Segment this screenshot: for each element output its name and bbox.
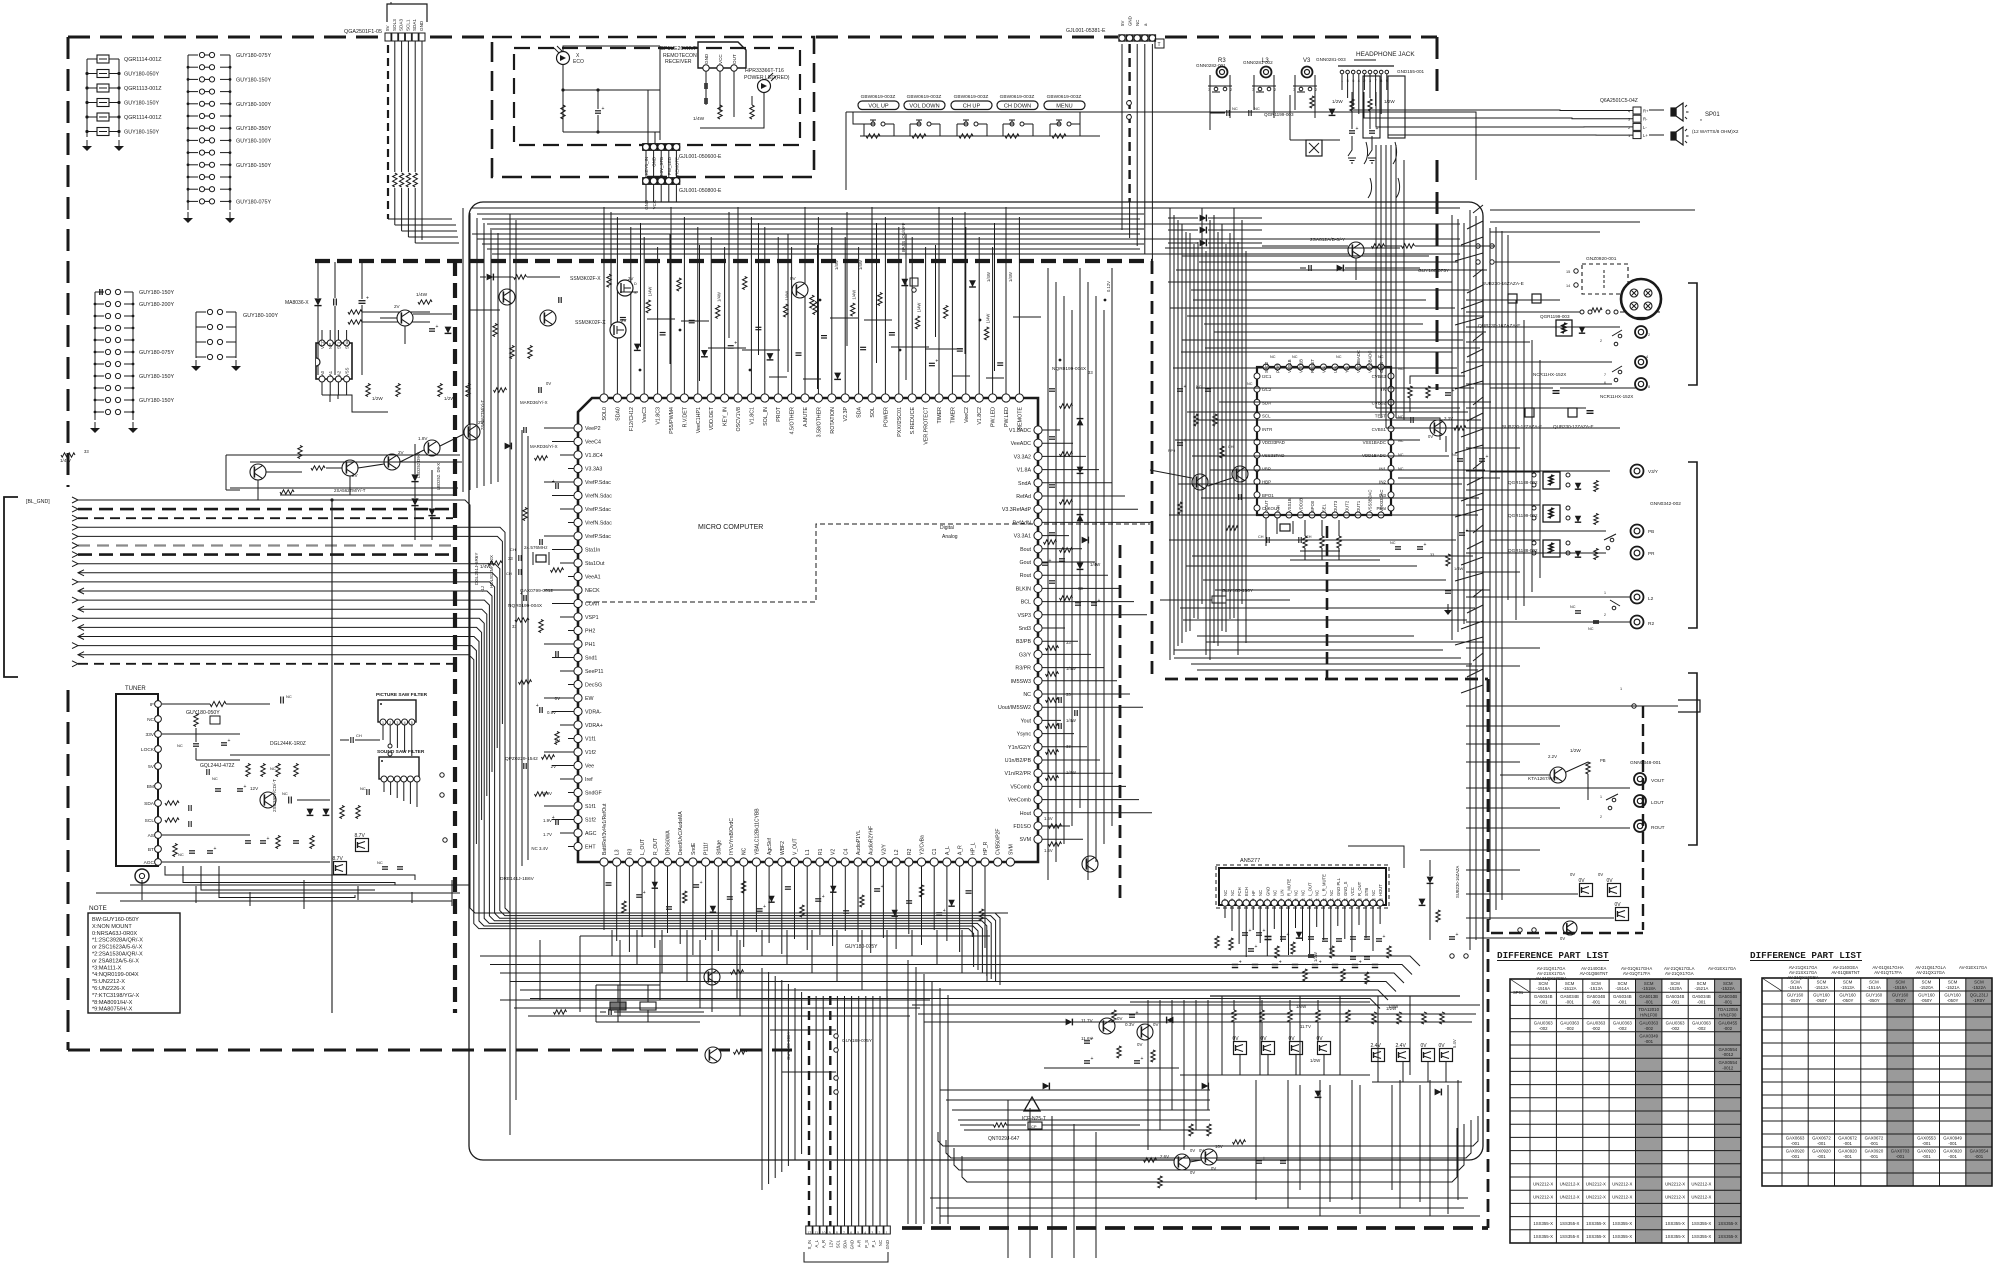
- svg-text:1V: 1V: [555, 738, 560, 743]
- svg-text:GA5034B: GA5034B: [1613, 994, 1632, 999]
- DIN round connector: [1621, 279, 1661, 319]
- svg-text:H/N1F00: H/N1F00: [1719, 1013, 1737, 1018]
- svg-text:+: +: [643, 890, 646, 896]
- svg-text:+: +: [602, 106, 605, 112]
- svg-text:PXX/I2SC01: PXX/I2SC01: [897, 407, 903, 437]
- svg-text:+: +: [935, 358, 938, 364]
- svg-text:1/4W: 1/4W: [1454, 566, 1464, 571]
- svg-text:ECH: ECH: [1244, 887, 1249, 896]
- headphone jack 9-pin connector: [1332, 60, 1425, 198]
- svg-text:VCC: VCC: [1350, 887, 1355, 896]
- QGR1188-002 transformer blocks with jacks V3/Y PB PR: [1490, 465, 1681, 560]
- svg-text:QGR1199-003: QGR1199-003: [1264, 112, 1294, 117]
- svg-text:SOL0: SOL0: [602, 407, 608, 421]
- remote circuit wires and parts: [561, 46, 764, 147]
- svg-text:1/2W: 1/2W: [1570, 748, 1581, 753]
- svg-text:1.8V: 1.8V: [418, 436, 428, 441]
- svg-text:PR: PR: [1648, 551, 1655, 556]
- right-mid extra horizontal wires: [1168, 282, 1491, 670]
- svg-text:GAX0554: GAX0554: [1718, 1047, 1737, 1052]
- svg-text:A_L: A_L: [945, 846, 951, 855]
- svg-text:21: 21: [1365, 898, 1369, 902]
- svg-text:SCL: SCL: [1262, 414, 1271, 419]
- svg-text:7: 7: [1266, 898, 1268, 902]
- svg-text:AudioR2YHF: AudioR2YHF: [869, 826, 875, 855]
- svg-text:1/4W: 1/4W: [717, 292, 722, 302]
- svg-text:GAX0349: GAX0349: [1639, 1034, 1658, 1039]
- remote receiver module: [660, 42, 746, 117]
- svg-text:-050Y: -050Y: [1921, 998, 1933, 1003]
- svg-text:GJL001-05381-E: GJL001-05381-E: [1066, 28, 1106, 34]
- svg-text:GUY160: GUY160: [1787, 993, 1804, 998]
- svg-text:GAU0363: GAU0363: [1666, 1020, 1685, 1025]
- svg-text:1/4W: 1/4W: [693, 116, 705, 122]
- svg-text:SndE: SndE: [691, 842, 697, 855]
- svg-text:23: 23: [1379, 898, 1383, 902]
- svg-text:AV-01EX17GA: AV-01EX17GA: [1708, 966, 1736, 971]
- svg-text:GUY160: GUY160: [1892, 993, 1909, 998]
- svg-text:GUY180-075Y: GUY180-075Y: [1418, 268, 1450, 274]
- svg-text:SndA: SndA: [1018, 481, 1031, 487]
- svg-text:+: +: [1049, 558, 1052, 564]
- svg-text:-1520A: -1520A: [1919, 985, 1933, 990]
- svg-text:-1513A: -1513A: [1841, 985, 1855, 990]
- svg-text:SDA: SDA: [144, 801, 155, 807]
- svg-text:GBW0619-003Z: GBW0619-003Z: [1000, 94, 1035, 100]
- svg-text:V1.8ADC: V1.8ADC: [1009, 428, 1031, 434]
- svg-text:NQR0199-004X: NQR0199-004X: [1052, 366, 1087, 372]
- svg-text:1SS355-X: 1SS355-X: [1718, 1234, 1738, 1239]
- svg-text:SOUND SAW FILTER: SOUND SAW FILTER: [377, 749, 425, 755]
- svg-text:2V: 2V: [621, 318, 626, 323]
- svg-text:Yout: Yout: [1021, 718, 1032, 724]
- svg-text:VeeC4: VeeC4: [585, 440, 601, 446]
- vertical wires right of micro computer: [1048, 268, 1112, 880]
- svg-text:2SA812A/B-6/-Y: 2SA812A/B-6/-Y: [1310, 237, 1346, 243]
- svg-text:+: +: [1279, 960, 1282, 966]
- svg-text:1/2W: 1/2W: [1332, 99, 1343, 104]
- IC bottom pin wire extensions to routing bus: [612, 930, 987, 999]
- svg-text:-002: -002: [1539, 1026, 1548, 1031]
- svg-text:IF: IF: [150, 702, 154, 708]
- svg-text:VeeP2: VeeP2: [585, 426, 601, 432]
- svg-text:GQL244J-472Z: GQL244J-472Z: [200, 763, 234, 769]
- svg-text:-001: -001: [1870, 1141, 1879, 1146]
- svg-text:-1522A: -1522A: [1972, 985, 1986, 990]
- vertical wire bundle to bottom connector: [762, 968, 887, 1226]
- svg-text:1/4W: 1/4W: [416, 292, 428, 298]
- svg-text:-001: -001: [1817, 1154, 1826, 1159]
- svg-text:HOUT: HOUT: [1378, 884, 1383, 896]
- svg-text:-050Y: -050Y: [1894, 998, 1906, 1003]
- svg-text:-001: -001: [1948, 1154, 1957, 1159]
- svg-text:1/4W: 1/4W: [647, 287, 652, 297]
- svg-text:1SS355-X: 1SS355-X: [1533, 1234, 1553, 1239]
- svg-text:-1518A: -1518A: [1893, 985, 1907, 990]
- svg-text:AGC: AGC: [585, 831, 597, 837]
- svg-text:GAX0920: GAX0920: [1917, 1149, 1936, 1154]
- svg-text:VrefP.Sdac: VrefP.Sdac: [585, 507, 611, 513]
- svg-text:+: +: [1263, 928, 1266, 934]
- svg-text:Q6A2501C5-04Z: Q6A2501C5-04Z: [1600, 98, 1638, 104]
- svg-text:-001: -001: [1791, 1141, 1800, 1146]
- svg-text:OUT3: OUT3: [1333, 500, 1338, 512]
- svg-text:KEY_IN: KEY_IN: [723, 407, 729, 426]
- svg-text:SVM: SVM: [1020, 837, 1031, 843]
- svg-text:1SS355-X: 1SS355-X: [1560, 1234, 1580, 1239]
- bottom connector 13-pin: [804, 1226, 890, 1262]
- svg-text:NC: NC: [1371, 890, 1376, 896]
- svg-text:R_OUT: R_OUT: [653, 838, 659, 855]
- svg-text:NC: NC: [282, 791, 288, 796]
- svg-text:AV-01QB6TNT: AV-01QB6TNT: [1580, 971, 1609, 976]
- svg-text:GNZ0920-001: GNZ0920-001: [1586, 256, 1617, 262]
- bottom long horizontal rails: [912, 1005, 1480, 1216]
- svg-text:UN2212-X: UN2212-X: [1533, 1181, 1553, 1186]
- connector pad array GUY180 column 1: [183, 52, 271, 223]
- svg-text:1SS355-X: 1SS355-X: [1613, 1234, 1633, 1239]
- svg-text:UN2212-X: UN2212-X: [1665, 1181, 1685, 1186]
- svg-text:+: +: [1456, 932, 1459, 938]
- svg-text:EW: EW: [585, 696, 594, 702]
- remote receiver inner dashed box: [514, 48, 800, 145]
- svg-text:SCM: SCM: [1644, 981, 1654, 986]
- svg-text:R_OUT: R_OUT: [1357, 881, 1362, 896]
- svg-text:GND: GND: [885, 1240, 890, 1249]
- svg-text:-002: -002: [1565, 1026, 1574, 1031]
- svg-text:GUY180-150Y: GUY180-150Y: [236, 77, 271, 83]
- svg-text:PW.LED: PW.LED: [991, 407, 997, 427]
- svg-text:AgcSkif: AgcSkif: [767, 837, 773, 855]
- svg-text:SCM: SCM: [1948, 980, 1958, 985]
- svg-text:4: 4: [1646, 355, 1648, 359]
- svg-text:1: 1: [1224, 898, 1226, 902]
- svg-text:1/4W: 1/4W: [1066, 666, 1076, 671]
- svg-text:10: 10: [822, 1231, 826, 1235]
- bottom right extra verticals toward tables: [1300, 1085, 1448, 1214]
- svg-text:R_MUTE: R_MUTE: [1287, 879, 1292, 896]
- svg-text:0V: 0V: [1428, 434, 1433, 439]
- U2 right support: 3.3V transistor: [1398, 376, 1500, 478]
- svg-text:1.9V: 1.9V: [543, 791, 552, 796]
- svg-text:UN2212-X: UN2212-X: [1560, 1181, 1580, 1186]
- svg-text:2V: 2V: [352, 473, 359, 478]
- svg-text:1.7V: 1.7V: [543, 832, 552, 837]
- svg-text:GND_S: GND_S: [1343, 881, 1348, 896]
- U2 bottom resistors: [1290, 520, 1469, 615]
- svg-text:11: 11: [1295, 898, 1299, 902]
- transistor cluster 2SA562TM: [226, 384, 485, 501]
- svg-text:-1522A: -1522A: [1721, 986, 1735, 991]
- svg-text:GJL001-050600-E: GJL001-050600-E: [679, 154, 722, 160]
- svg-text:KTA1267/H/-Y: KTA1267/H/-Y: [1528, 776, 1559, 782]
- svg-text:NC: NC: [1570, 605, 1576, 609]
- svg-text:NC: NC: [1258, 890, 1263, 896]
- svg-text:GND: GND: [850, 1240, 855, 1249]
- svg-text:L2: L2: [1648, 596, 1654, 602]
- svg-text:WBF2: WBF2: [780, 841, 786, 855]
- svg-text:VeeComb: VeeComb: [1008, 798, 1031, 804]
- svg-text:GUY180-150Y: GUY180-150Y: [139, 398, 174, 404]
- svg-text:+: +: [1359, 960, 1362, 966]
- KTA1267 transistor: [1500, 748, 1606, 800]
- svg-text:DRE141J-1B6V: DRE141J-1B6V: [500, 876, 535, 882]
- svg-text:DIFFERENCE PART LIST: DIFFERENCE PART LIST: [1750, 950, 1862, 961]
- diode pair top right: [1168, 215, 1262, 247]
- svg-text:2.2V: 2.2V: [1548, 754, 1557, 759]
- svg-text:TDA12056: TDA12056: [1718, 1007, 1739, 1012]
- svg-text:GUY180-150Y: GUY180-150Y: [139, 290, 174, 296]
- svg-text:BCL: BCL: [1021, 600, 1031, 606]
- svg-text:PICTURE SAW FILTER: PICTURE SAW FILTER: [376, 692, 428, 698]
- svg-text:OUT: OUT: [732, 54, 737, 64]
- svg-text:QGL231J: QGL231J: [1970, 993, 1988, 998]
- svg-text:VSS3BADC: VSS3BADC: [1368, 351, 1373, 373]
- svg-text:5V: 5V: [148, 764, 155, 770]
- right edge small jack mid: [1620, 687, 1700, 712]
- svg-text:GNN0281-003: GNN0281-003: [1316, 57, 1346, 62]
- svg-text:VOL UP: VOL UP: [868, 104, 889, 110]
- svg-text:-001: -001: [1817, 1141, 1826, 1146]
- svg-text:GND: GND: [1265, 887, 1270, 896]
- svg-text:+: +: [1383, 934, 1386, 940]
- svg-text:VDD3BADC: VDD3BADC: [1356, 350, 1361, 373]
- svg-text:Sta1In: Sta1In: [585, 548, 600, 554]
- svg-text:12V: 12V: [828, 1240, 833, 1248]
- svg-text:-1521A: -1521A: [1946, 985, 1960, 990]
- svg-text:NC: NC: [1292, 355, 1298, 359]
- left vertical wires inside outline: [463, 208, 516, 1135]
- svg-text:MA8036-X: MA8036-X: [285, 300, 309, 306]
- svg-text:LOCK: LOCK: [141, 747, 155, 753]
- svg-text:GNN0342-002: GNN0342-002: [1650, 501, 1681, 507]
- svg-text:BLKIN: BLKIN: [1016, 586, 1031, 592]
- 8.7V boxed transistors near tuner: [333, 773, 448, 875]
- svg-text:LED252 D9-X: LED252 D9-X: [416, 452, 421, 478]
- svg-text:24.576MHz: 24.576MHz: [524, 545, 548, 550]
- svg-text:1SS355-X: 1SS355-X: [1665, 1221, 1685, 1226]
- svg-text:-0012: -0012: [1722, 1065, 1734, 1070]
- svg-text:1SS355-X: 1SS355-X: [1613, 1221, 1633, 1226]
- svg-text:0V: 0V: [1190, 1170, 1195, 1175]
- below IC extra rails: [500, 940, 930, 1016]
- svg-text:SOL_IN: SOL_IN: [763, 407, 769, 426]
- GNZ0920-001 dashed connector: [1566, 256, 1628, 294]
- svg-text:+: +: [228, 738, 231, 744]
- vertical wires from top rail to IC top pins: [604, 207, 1019, 394]
- svg-text:*7:KTC3198/YG/-X: *7:KTC3198/YG/-X: [92, 993, 140, 999]
- svg-text:+: +: [881, 884, 884, 890]
- svg-text:3: 3: [871, 1231, 873, 1235]
- svg-text:33: 33: [508, 556, 513, 561]
- svg-text:GNN0282-001: GNN0282-001: [1196, 63, 1226, 68]
- svg-text:-001: -001: [1671, 999, 1680, 1004]
- svg-text:1/2W: 1/2W: [444, 396, 455, 401]
- svg-text:AN5277: AN5277: [1240, 858, 1260, 864]
- svg-text:1.9V: 1.9V: [543, 818, 552, 823]
- transistor 2SA812A/B-6: [1262, 237, 1494, 280]
- svg-text:SEL: SEL: [1322, 503, 1327, 512]
- svg-text:33: 33: [512, 624, 517, 629]
- svg-text:TIMER: TIMER: [950, 407, 956, 424]
- svg-text:16: 16: [1330, 898, 1334, 902]
- svg-text:GAU0363: GAU0363: [1613, 1020, 1632, 1025]
- svg-text:VDRA+: VDRA+: [585, 723, 603, 729]
- svg-text:GBW0619-003Z: GBW0619-003Z: [861, 94, 896, 100]
- svg-text:SP01: SP01: [1513, 990, 1524, 995]
- svg-text:NC: NC: [1230, 890, 1235, 896]
- svg-text:9: 9: [1386, 79, 1388, 83]
- svg-text:NC: NC: [1232, 106, 1238, 111]
- svg-text:0V: 0V: [790, 276, 797, 281]
- svg-text:5: 5: [1347, 79, 1349, 83]
- IR LED photo detector: [554, 46, 584, 65]
- svg-text:2.4V: 2.4V: [1371, 1043, 1382, 1049]
- svg-text:1SS355-X: 1SS355-X: [1718, 1221, 1738, 1226]
- svg-text:R-: R-: [1643, 117, 1648, 122]
- svg-text:-001: -001: [1896, 1154, 1905, 1159]
- svg-text:0V: 0V: [1190, 1148, 1195, 1153]
- output area dashed boundary: [1491, 706, 1643, 933]
- svg-text:GUY180-075Y: GUY180-075Y: [842, 1038, 872, 1043]
- svg-text:GUY160: GUY160: [1866, 993, 1883, 998]
- svg-text:NCR11HX-152X: NCR11HX-152X: [1600, 394, 1633, 399]
- svg-text:GND: GND: [704, 53, 709, 64]
- svg-text:F12/CH12: F12/CH12: [629, 407, 635, 431]
- svg-text:Batt/Ref/3v/4v1/RefOut: Batt/Ref/3v/4v1/RefOut: [602, 803, 608, 855]
- svg-text:3.58/OTHER: 3.58/OTHER: [816, 407, 822, 437]
- svg-text:A2: A2: [336, 370, 341, 376]
- svg-text:H/N1F00: H/N1F00: [1640, 1013, 1658, 1018]
- svg-text:Sta1Out: Sta1Out: [585, 561, 605, 567]
- svg-text:NC: NC: [1023, 692, 1031, 698]
- svg-text:V3.3A2: V3.3A2: [1014, 454, 1031, 460]
- svg-text:NC: NC: [177, 743, 183, 748]
- svg-text:SCM: SCM: [1670, 981, 1680, 986]
- svg-text:1SS355-X: 1SS355-X: [1692, 1234, 1712, 1239]
- LOUT ROUT jacks: [1490, 760, 1665, 832]
- saw filter wiring: [340, 725, 417, 807]
- svg-text:1/4W: 1/4W: [834, 260, 839, 270]
- bottom routing lines: [938, 1090, 1478, 1182]
- svg-text:ROTATION: ROTATION: [830, 407, 836, 434]
- svg-text:SSM3K02F-X: SSM3K02F-X: [570, 276, 601, 282]
- AN5277 extra capacitors: [1232, 960, 1378, 968]
- verticals from AN5277 region to bottom rail: [1222, 996, 1410, 1075]
- svg-text:GBW0619-003Z: GBW0619-003Z: [1047, 94, 1082, 100]
- svg-text:GA5034B: GA5034B: [1534, 994, 1553, 999]
- svg-text:P55/PWM4: P55/PWM4: [669, 407, 675, 434]
- svg-text:-001: -001: [1539, 999, 1548, 1004]
- svg-text:GAX0672: GAX0672: [1812, 1136, 1831, 1141]
- key buttons VOL UP / VOL DOWN / CH UP / CH DOWN / MENU: [846, 94, 1476, 190]
- svg-text:VSS1B: VSS1B: [1287, 359, 1292, 373]
- svg-text:-001: -001: [1723, 999, 1732, 1004]
- svg-text:A.MUTE: A.MUTE: [803, 407, 809, 427]
- svg-text:Snd3: Snd3: [1019, 626, 1031, 632]
- svg-text:20: 20: [1358, 898, 1362, 902]
- svg-text:1: 1: [1341, 79, 1343, 83]
- picture SAW filter: [376, 692, 428, 725]
- svg-text:0V: 0V: [1153, 1022, 1158, 1027]
- svg-text:SVM: SVM: [1008, 844, 1014, 855]
- svg-text:SDA: SDA: [843, 1240, 848, 1249]
- svg-text:2V: 2V: [628, 276, 633, 281]
- svg-text:+: +: [763, 904, 766, 910]
- svg-text:-001: -001: [1644, 999, 1653, 1004]
- tuner area lower wires: [96, 866, 460, 909]
- svg-text:1: 1: [1604, 591, 1606, 595]
- svg-text:XOUT: XOUT: [1264, 500, 1269, 512]
- L2 R2 jacks: [1490, 591, 1654, 632]
- svg-text:GUY160: GUY160: [1813, 993, 1830, 998]
- svg-text:SCM: SCM: [1591, 981, 1601, 986]
- svg-text:0V: 0V: [1117, 1016, 1122, 1021]
- svg-text:GUY180-350Y: GUY180-350Y: [236, 126, 271, 132]
- svg-text:+: +: [943, 908, 946, 914]
- svg-text:VER.PROTECT: VER.PROTECT: [924, 406, 930, 444]
- svg-text:0V: 0V: [1598, 872, 1603, 877]
- svg-text:+: +: [1091, 1036, 1094, 1042]
- svg-text:Iref: Iref: [585, 777, 593, 783]
- svg-text:-001: -001: [1922, 1154, 1931, 1159]
- svg-text:NC: NC: [360, 786, 366, 791]
- svg-text:QGR1113-001Z: QGR1113-001Z: [124, 86, 162, 92]
- svg-text:GBW0619-003Z: GBW0619-003Z: [954, 94, 989, 100]
- svg-text:1/4W: 1/4W: [917, 303, 922, 313]
- svg-text:GAX0920: GAX0920: [1943, 1149, 1962, 1154]
- svg-text:V5Comb: V5Comb: [1010, 784, 1031, 790]
- svg-text:+: +: [1287, 932, 1290, 938]
- svg-text:0V: 0V: [1137, 1042, 1142, 1047]
- svg-text:-1516A: -1516A: [1788, 985, 1802, 990]
- micro computer IC U1 body: [578, 398, 1038, 862]
- svg-text:SCM: SCM: [1843, 980, 1853, 985]
- svg-text:L_OUT: L_OUT: [1308, 882, 1313, 896]
- svg-text:CVB50/P2F: CVB50/P2F: [996, 829, 1002, 855]
- svg-text:1SS355-X: 1SS355-X: [1586, 1221, 1606, 1226]
- speaker wires: [1352, 92, 1664, 135]
- svg-text:-001: -001: [1644, 1039, 1653, 1044]
- svg-text:0.3V: 0.3V: [1125, 1022, 1135, 1027]
- svg-text:GAX0799-0012: GAX0799-0012: [520, 588, 553, 594]
- svg-text:AudioP1YL: AudioP1YL: [856, 830, 862, 855]
- svg-text:QUB230-16ZAZA-E: QUB230-16ZAZA-E: [1478, 323, 1520, 329]
- svg-text:2: 2: [1231, 898, 1233, 902]
- connector pad array GUY180 column 2: [90, 289, 174, 433]
- svg-text:1/4W: 1/4W: [986, 272, 991, 282]
- svg-text:-1514A: -1514A: [1867, 985, 1881, 990]
- svg-text:IYVc/YmB/OvdC: IYVc/YmB/OvdC: [729, 818, 735, 855]
- svg-text:Y1n/G2/Y: Y1n/G2/Y: [1008, 745, 1031, 751]
- svg-text:AS: AS: [148, 833, 154, 839]
- 0V boxed transistors right bottom: [1518, 872, 1629, 941]
- svg-text:GAX0920: GAX0920: [1786, 1149, 1805, 1154]
- svg-text:PH1: PH1: [585, 642, 595, 648]
- svg-text:1/2W: 1/2W: [1384, 99, 1395, 104]
- svg-text:+: +: [734, 341, 737, 347]
- NC labels around U2: [1247, 355, 1404, 471]
- svg-text:NC: NC: [212, 776, 218, 781]
- svg-text:ICP-N25-T: ICP-N25-T: [1022, 1116, 1046, 1122]
- svg-text:NC: NC: [1272, 890, 1277, 896]
- svg-text:AGC: AGC: [144, 860, 155, 866]
- svg-text:+: +: [1486, 454, 1489, 460]
- svg-text:VrefN.Sdac: VrefN.Sdac: [585, 494, 612, 500]
- svg-text:L1: L1: [805, 849, 811, 855]
- svg-text:V1.8C4: V1.8C4: [585, 453, 603, 459]
- left pin connection stubs: [522, 428, 574, 866]
